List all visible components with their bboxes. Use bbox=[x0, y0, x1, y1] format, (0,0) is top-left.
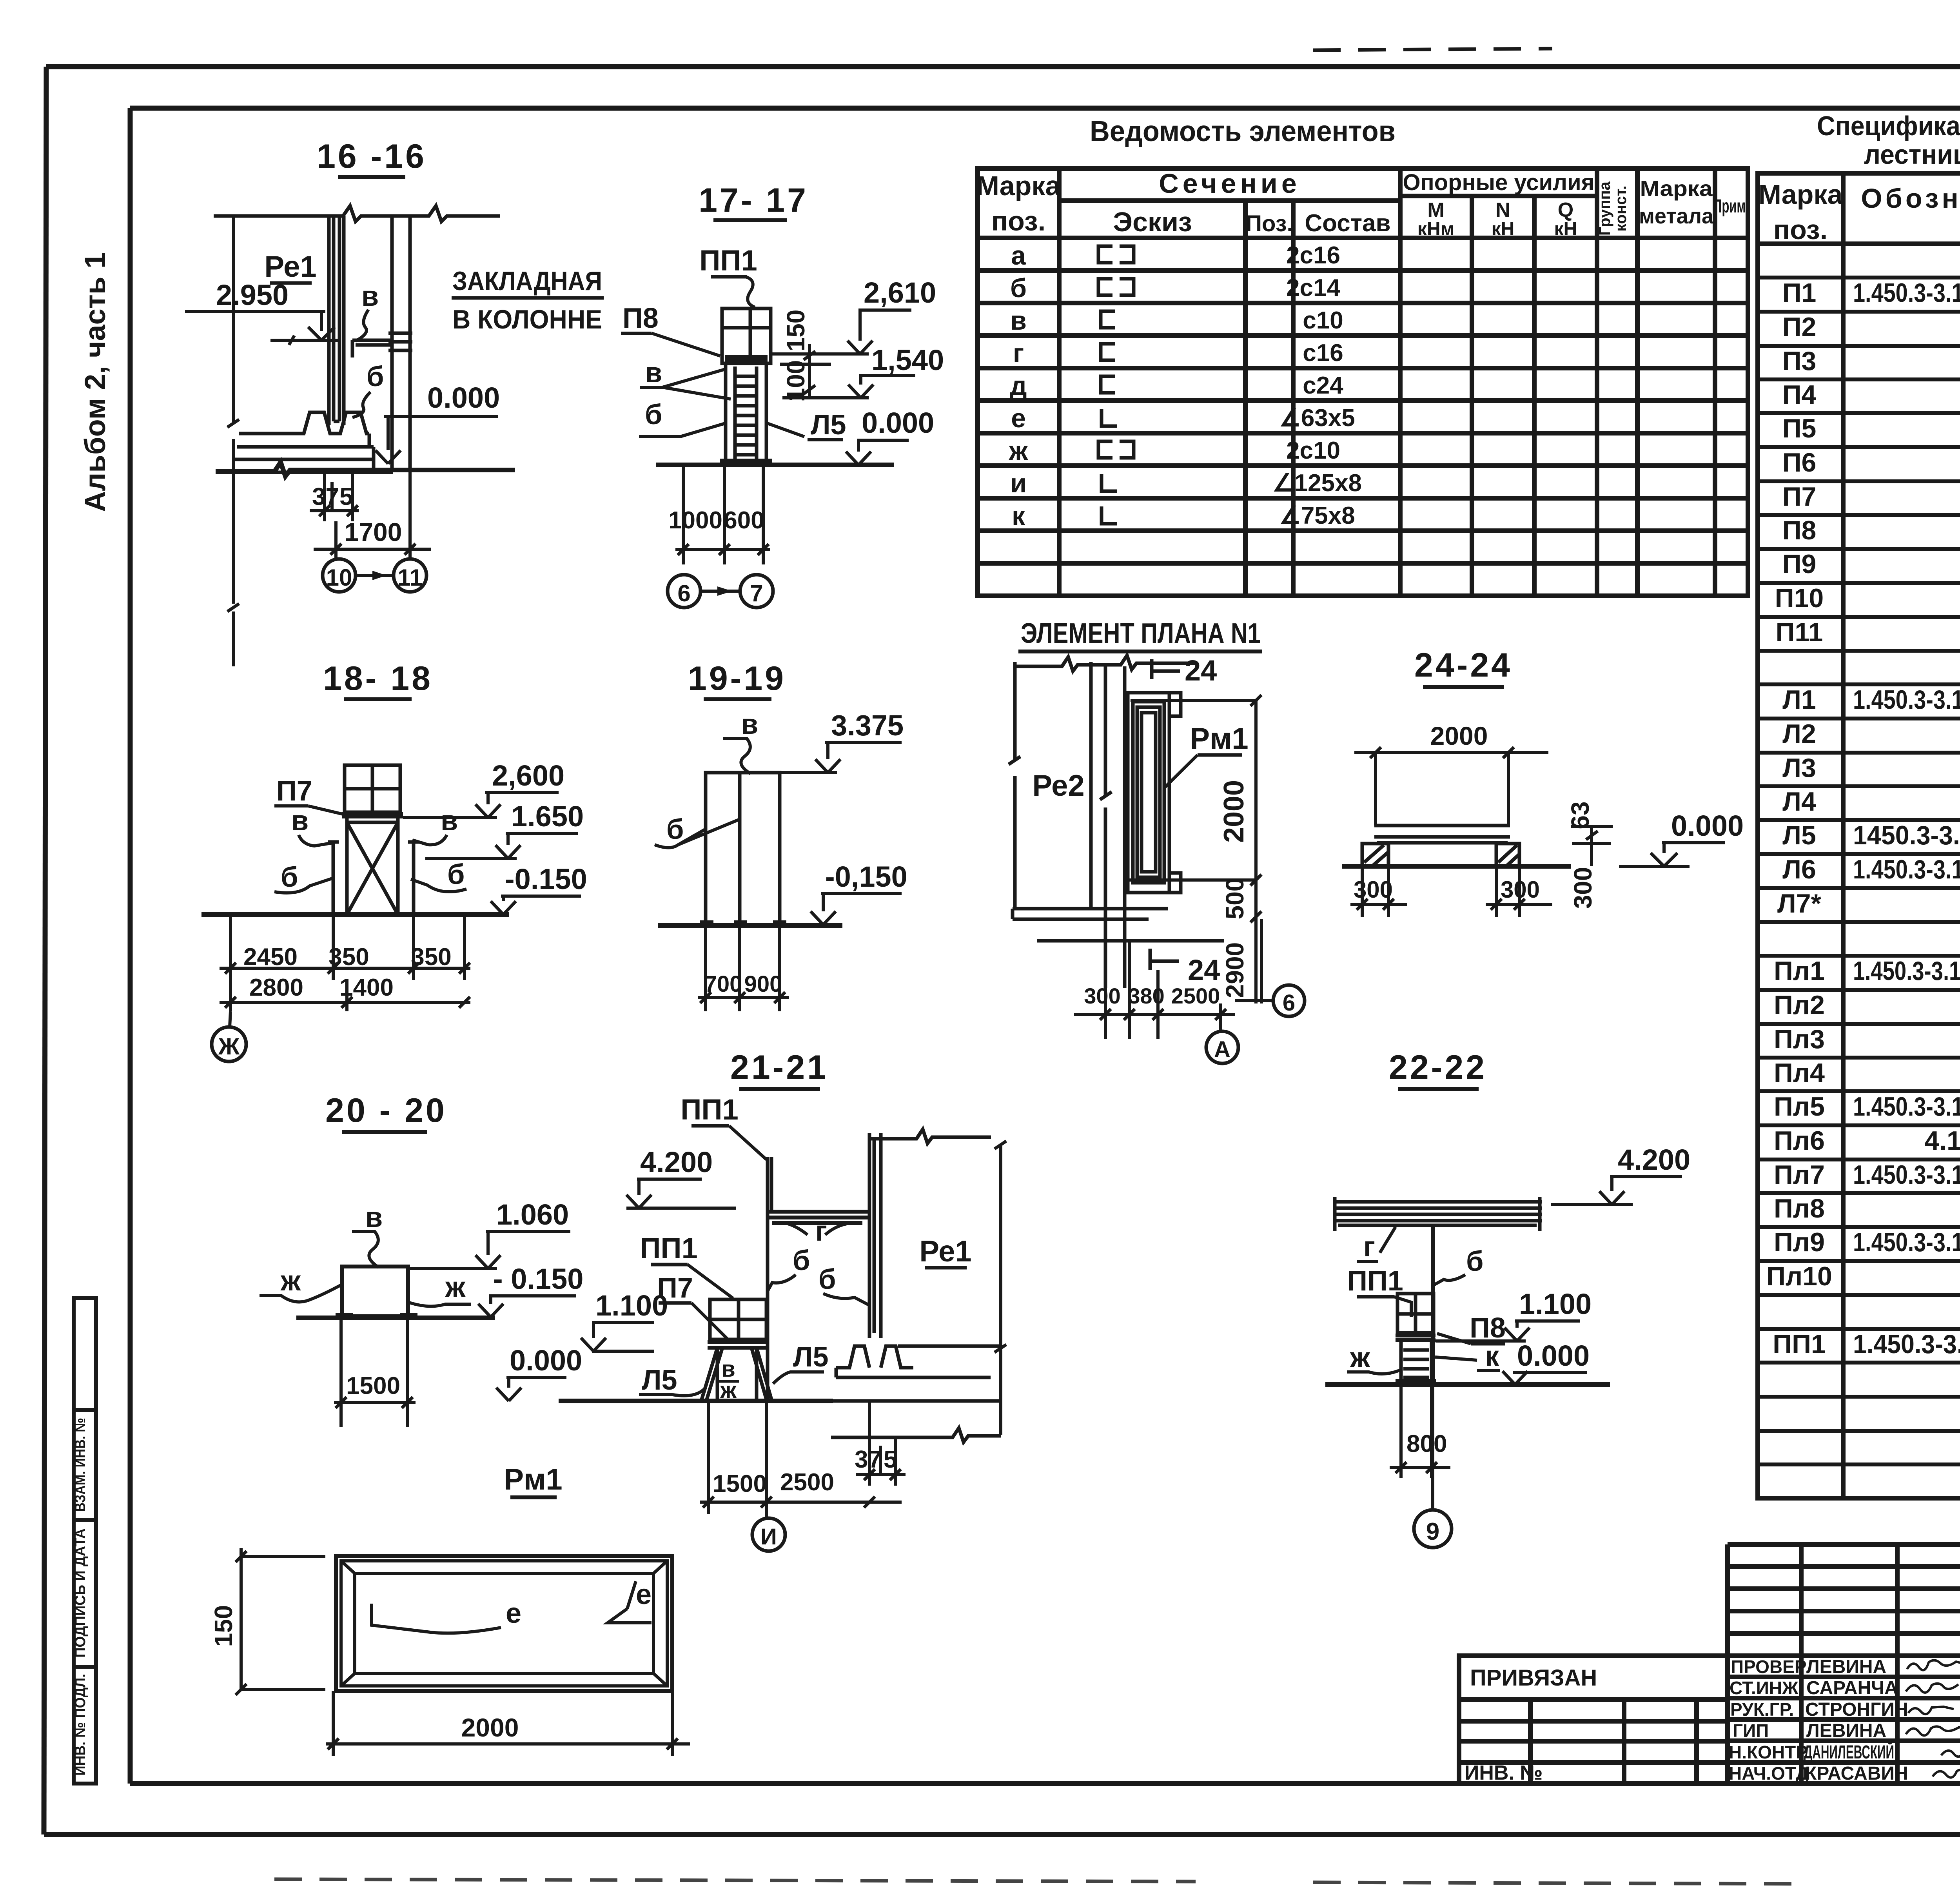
svg-text:20 - 20: 20 - 20 bbox=[325, 1092, 447, 1129]
svg-text:к: к bbox=[1012, 501, 1025, 531]
svg-text:П9: П9 bbox=[1782, 549, 1817, 579]
svg-text:поз.: поз. bbox=[991, 206, 1045, 236]
svg-text:ПП1: ПП1 bbox=[681, 1093, 739, 1126]
spec header texts bbox=[1759, 179, 1960, 245]
svg-text:Пл7: Пл7 bbox=[1774, 1160, 1825, 1190]
22-22 base pads bbox=[1396, 1379, 1436, 1384]
signature names bbox=[1804, 1657, 1908, 1784]
svg-text:с16: с16 bbox=[1303, 339, 1343, 367]
svg-text:П4: П4 bbox=[1782, 380, 1817, 410]
svg-text:100: 100 bbox=[782, 360, 810, 402]
svg-text:7: 7 bbox=[750, 580, 763, 606]
svg-text:М: М bbox=[1427, 199, 1444, 221]
svg-text:1.100: 1.100 bbox=[595, 1289, 668, 1322]
svg-text:РУК.ГР.: РУК.ГР. bbox=[1730, 1699, 1794, 1720]
svg-text:Эскиз: Эскиз bbox=[1113, 207, 1192, 237]
svg-text:Прим.: Прим. bbox=[1713, 196, 1749, 217]
svg-text:Пл9: Пл9 bbox=[1774, 1227, 1825, 1257]
svg-text:с10: с10 bbox=[1303, 307, 1343, 334]
svg-text:б: б bbox=[367, 361, 384, 392]
svg-text:Спецификация к схемам распо: Спецификация к схемам расположения площа… bbox=[1817, 111, 1960, 141]
svg-text:Группа: Группа bbox=[1596, 181, 1613, 236]
16-16 angle bracket at wall bbox=[352, 340, 392, 357]
svg-text:П3: П3 bbox=[1782, 346, 1817, 376]
svg-text:∠125х8: ∠125х8 bbox=[1272, 470, 1362, 497]
20-20 ground line bbox=[296, 1316, 495, 1320]
svg-text:2,610: 2,610 bbox=[864, 276, 936, 309]
svg-text:1.450.3-3.1 4.1.2.1.0-02: 1.450.3-3.1 4.1.2.1.0-02 bbox=[1853, 1227, 1960, 1257]
21-21 wall Pe1 bbox=[869, 1133, 881, 1338]
svg-text:300: 300 bbox=[1569, 867, 1597, 909]
svg-text:1500: 1500 bbox=[346, 1372, 400, 1399]
handwritten signatures bbox=[1906, 1660, 1960, 1777]
svg-text:Л5: Л5 bbox=[793, 1341, 829, 1373]
svg-text:ПП1: ПП1 bbox=[1773, 1329, 1826, 1359]
svg-text:2000: 2000 bbox=[1218, 780, 1250, 843]
svg-text:в: в bbox=[441, 805, 458, 836]
20-20 base pads bbox=[336, 1313, 353, 1318]
svg-text:поз.: поз. bbox=[1773, 214, 1828, 245]
svg-text:Марка: Марка bbox=[976, 171, 1061, 201]
svg-text:е: е bbox=[1011, 403, 1026, 433]
svg-text:4.200: 4.200 bbox=[640, 1146, 713, 1178]
svg-text:ИНВ. № ПОДЛ.: ИНВ. № ПОДЛ. bbox=[72, 1674, 89, 1776]
svg-text:ж: ж bbox=[1009, 436, 1028, 466]
21-21 wall top break bbox=[869, 1129, 991, 1143]
svg-text:2450: 2450 bbox=[243, 944, 298, 971]
svg-text:2с14: 2с14 bbox=[1286, 274, 1340, 301]
16-16 partition panel Pe1 bbox=[329, 216, 344, 425]
vedomost header texts bbox=[976, 168, 1749, 240]
svg-text:ЭЛЕМЕНТ ПЛАНА N1: ЭЛЕМЕНТ ПЛАНА N1 bbox=[1021, 618, 1261, 649]
16-16 embedded plate in column bbox=[388, 333, 412, 350]
18-18 axis circle Zh bbox=[212, 1027, 246, 1062]
svg-text:Л7*: Л7* bbox=[1777, 889, 1822, 918]
svg-text:П8: П8 bbox=[1470, 1312, 1506, 1344]
svg-text:П8: П8 bbox=[1782, 515, 1817, 545]
svg-text:Л5: Л5 bbox=[642, 1365, 677, 1396]
svg-text:500: 500 bbox=[1221, 878, 1249, 920]
svg-text:4.200: 4.200 bbox=[1618, 1143, 1690, 1176]
plan axis circle A bbox=[1206, 1031, 1238, 1063]
19-19 column bbox=[706, 773, 780, 925]
svg-text:1.450.3-3.1 1.2.1.0.0-07: 1.450.3-3.1 1.2.1.0.0-07 bbox=[1853, 855, 1960, 884]
vedomost sostav texts bbox=[1272, 242, 1362, 529]
svg-text:Пл10: Пл10 bbox=[1766, 1261, 1832, 1291]
svg-text:Сечение: Сечение bbox=[1159, 168, 1301, 199]
svg-text:Л1: Л1 bbox=[1782, 685, 1816, 715]
svg-text:ЛЕВИНА: ЛЕВИНА bbox=[1806, 1657, 1886, 1677]
21-21 axis circle I bbox=[752, 1518, 785, 1551]
svg-text:0.000: 0.000 bbox=[1671, 809, 1744, 842]
plan wall top break bbox=[1015, 655, 1195, 671]
svg-text:2800: 2800 bbox=[249, 974, 303, 1001]
svg-text:Л3: Л3 bbox=[1782, 753, 1816, 783]
left margin stamp strip bbox=[74, 1298, 96, 1784]
22-22 ground line bbox=[1325, 1382, 1610, 1387]
16-16 axis circle 11 bbox=[394, 559, 426, 592]
plan window opening with plate bbox=[1128, 693, 1181, 893]
svg-text:19-19: 19-19 bbox=[688, 660, 786, 697]
svg-text:Рм1: Рм1 bbox=[504, 1463, 562, 1496]
svg-text:Состав: Состав bbox=[1305, 210, 1390, 237]
svg-text:Ре2: Ре2 bbox=[1032, 769, 1084, 802]
svg-text:1.650: 1.650 bbox=[511, 800, 584, 833]
svg-text:11: 11 bbox=[397, 564, 422, 591]
svg-text:б: б bbox=[645, 399, 662, 430]
svg-text:ПОДПИСЬ И ДАТА: ПОДПИСЬ И ДАТА bbox=[72, 1528, 89, 1658]
svg-text:-0.150: -0.150 bbox=[505, 863, 587, 895]
svg-text:1.450.3-3.1 4.1.1.1.0-06: 1.450.3-3.1 4.1.1.1.0-06 bbox=[1853, 1160, 1960, 1190]
svg-text:∠63х5: ∠63х5 bbox=[1279, 405, 1355, 432]
22-22 post bbox=[1431, 1227, 1435, 1383]
svg-text:ВЗАМ. ИНВ. №: ВЗАМ. ИНВ. № bbox=[72, 1418, 89, 1512]
svg-text:1500: 1500 bbox=[713, 1470, 767, 1497]
24-24 platform slab bbox=[1374, 826, 1510, 843]
16-16 column wall bbox=[392, 216, 410, 470]
signature column grid bbox=[1728, 1544, 1960, 1784]
svg-text:2900: 2900 bbox=[1221, 942, 1249, 998]
svg-text:в: в bbox=[645, 357, 662, 388]
svg-text:0.000: 0.000 bbox=[510, 1344, 582, 1377]
svg-text:б: б bbox=[1010, 273, 1027, 303]
17-17 base plate bbox=[720, 459, 772, 465]
svg-text:Марка: Марка bbox=[1640, 176, 1713, 201]
svg-text:-0,150: -0,150 bbox=[825, 860, 907, 893]
svg-text:1450.3-3.1 .3.1.0.1.0: 1450.3-3.1 .3.1.0.1.0 bbox=[1853, 820, 1960, 850]
svg-text:ПРИВЯЗАН: ПРИВЯЗАН bbox=[1470, 1665, 1597, 1691]
svg-text:22-22: 22-22 bbox=[1389, 1049, 1487, 1086]
plan axis circle B bbox=[1273, 985, 1305, 1016]
plan section mark 24 bottom bbox=[1150, 949, 1179, 970]
svg-text:150: 150 bbox=[782, 310, 810, 352]
svg-text:Рм1: Рм1 bbox=[1190, 722, 1248, 755]
svg-text:б: б bbox=[281, 862, 298, 893]
plan wall Pe2 right edge bbox=[1089, 662, 1093, 909]
21-21 ground line bbox=[559, 1399, 833, 1403]
svg-text:10: 10 bbox=[326, 564, 352, 591]
24-24 support blocks hatched bbox=[1362, 844, 1519, 866]
svg-text:конст.: конст. bbox=[1612, 185, 1630, 232]
svg-text:ЗАКЛАДНАЯ: ЗАКЛАДНАЯ bbox=[452, 266, 602, 296]
svg-text:СТРОНГИН: СТРОНГИН bbox=[1805, 1699, 1908, 1720]
21-21 wall footing ribs bbox=[836, 1346, 913, 1368]
svg-text:24-24: 24-24 bbox=[1414, 646, 1512, 684]
plan inner wall lines bbox=[1100, 666, 1125, 988]
svg-text:Ведомость элементов: Ведомость элементов bbox=[1090, 115, 1396, 147]
17-17 dims below ground bbox=[675, 465, 770, 564]
17-17 axis circle 7 bbox=[740, 575, 773, 608]
svg-text:Л6: Л6 bbox=[1782, 855, 1816, 884]
21-21 railing post bbox=[768, 1157, 771, 1401]
svg-text:17- 17: 17- 17 bbox=[699, 181, 808, 219]
svg-text:21-21: 21-21 bbox=[730, 1049, 828, 1086]
svg-text:ИНВ. №: ИНВ. № bbox=[1465, 1762, 1543, 1784]
svg-text:16 -16: 16 -16 bbox=[317, 138, 426, 175]
svg-text:Пл8: Пл8 bbox=[1774, 1194, 1825, 1223]
svg-text:1000: 1000 bbox=[668, 507, 722, 534]
18-18 X braced panel bbox=[347, 818, 398, 915]
plan section mark 24 top bbox=[1152, 659, 1180, 679]
svg-text:П7: П7 bbox=[276, 775, 312, 807]
vedomost sketch symbols bbox=[1098, 246, 1134, 524]
svg-text:2500: 2500 bbox=[780, 1469, 834, 1496]
svg-text:2500: 2500 bbox=[1171, 983, 1220, 1008]
svg-text:ПП1: ПП1 bbox=[1347, 1265, 1403, 1297]
svg-text:ПРОВЕР: ПРОВЕР bbox=[1731, 1657, 1807, 1677]
svg-text:9: 9 bbox=[1426, 1518, 1439, 1545]
22-22 axis circle 9 bbox=[1414, 1510, 1452, 1548]
svg-text:Марка: Марка bbox=[1759, 179, 1843, 210]
spec table grid bbox=[1758, 173, 1960, 1498]
svg-text:В КОЛОННЕ: В КОЛОННЕ bbox=[452, 305, 602, 334]
svg-text:Пл6: Пл6 bbox=[1774, 1126, 1825, 1156]
svg-text:П6: П6 bbox=[1782, 448, 1817, 477]
svg-text:Пл3: Пл3 bbox=[1774, 1024, 1825, 1054]
svg-text:кН: кН bbox=[1554, 219, 1577, 240]
Rm1 plate outer bbox=[336, 1556, 672, 1691]
svg-text:Пл1: Пл1 bbox=[1774, 956, 1825, 986]
svg-text:Q: Q bbox=[1558, 199, 1573, 221]
svg-text:18- 18: 18- 18 bbox=[323, 660, 433, 697]
21-21 trestle legs bbox=[702, 1348, 771, 1399]
17-17 column head block bbox=[722, 308, 771, 363]
22-22 cap plate bbox=[1396, 1335, 1436, 1340]
svg-text:с24: с24 bbox=[1303, 372, 1343, 399]
svg-text:6: 6 bbox=[1283, 990, 1295, 1016]
svg-text:г: г bbox=[1013, 338, 1024, 368]
svg-text:в: в bbox=[365, 1202, 383, 1233]
svg-text:3.375: 3.375 bbox=[831, 709, 904, 742]
svg-text:Поз.: Поз. bbox=[1245, 211, 1293, 236]
svg-text:ПП1: ПП1 bbox=[699, 244, 757, 277]
svg-text:П2: П2 bbox=[1782, 312, 1817, 342]
20-20 footing box bbox=[342, 1267, 408, 1316]
svg-text:1.450.3-3.1 4.1.1.1.0.-07: 1.450.3-3.1 4.1.1.1.0.-07 bbox=[1853, 956, 1960, 986]
19-19 base pads bbox=[700, 920, 713, 925]
18-18 side angle right bbox=[408, 842, 419, 915]
svg-text:2,600: 2,600 bbox=[492, 759, 564, 792]
svg-text:и: и bbox=[1010, 468, 1027, 498]
21-21 ladder cap bbox=[708, 1342, 769, 1348]
17-17 axis connector arrow bbox=[701, 590, 740, 593]
17-17 ground line bbox=[656, 463, 894, 467]
svg-text:Опорные усилия: Опорные усилия bbox=[1403, 170, 1594, 195]
24-24 ground line bbox=[1342, 864, 1571, 869]
16-16 ground line bbox=[216, 462, 515, 476]
svg-text:- 0.150: - 0.150 bbox=[493, 1263, 583, 1295]
22-22 rail block bbox=[1397, 1294, 1434, 1333]
svg-text:г: г bbox=[1363, 1231, 1375, 1263]
16-16 top break line bbox=[214, 206, 500, 221]
16-16 axis circle 10 bbox=[323, 559, 356, 592]
plan bottom wall corner bbox=[1013, 909, 1224, 941]
21-21 wall base slab bbox=[831, 1346, 1001, 1442]
svg-text:Ре1: Ре1 bbox=[919, 1235, 971, 1268]
svg-text:4.1.2.1.0.- 04: 4.1.2.1.0.- 04 bbox=[1924, 1126, 1960, 1156]
svg-text:б: б bbox=[447, 859, 465, 890]
svg-text:Л2: Л2 bbox=[1782, 719, 1816, 749]
17-17 cap plate bbox=[725, 355, 768, 363]
svg-text:А: А bbox=[1214, 1037, 1230, 1062]
svg-text:2000: 2000 bbox=[1430, 721, 1488, 750]
svg-text:Пл2: Пл2 bbox=[1774, 990, 1825, 1020]
svg-text:1.450.3-3.1 2.1.1.0.0-37: 1.450.3-3.1 2.1.1.0.0-37 bbox=[1853, 278, 1960, 308]
svg-text:кНм: кНм bbox=[1417, 219, 1454, 240]
17-17 axis circle 6 bbox=[668, 575, 701, 608]
svg-text:е: е bbox=[506, 1598, 521, 1629]
svg-text:2.950: 2.950 bbox=[216, 279, 289, 311]
svg-text:1700: 1700 bbox=[345, 517, 402, 546]
svg-text:П8: П8 bbox=[622, 303, 659, 334]
svg-text:НАЧ.ОТД: НАЧ.ОТД bbox=[1729, 1763, 1809, 1784]
svg-text:П5: П5 bbox=[1782, 414, 1817, 443]
Rm1 corner bevels bbox=[341, 1561, 667, 1686]
svg-text:1.100: 1.100 bbox=[1519, 1288, 1592, 1320]
22-22 roof slab bbox=[1333, 1197, 1542, 1231]
svg-text:б: б bbox=[818, 1264, 836, 1295]
svg-text:И: И bbox=[760, 1524, 777, 1550]
svg-text:метала: метала bbox=[1639, 203, 1714, 228]
svg-text:1.450.3-3.1 1.1.1.0.0-07: 1.450.3-3.1 1.1.1.0.0-07 bbox=[1853, 685, 1960, 715]
svg-text:800: 800 bbox=[1406, 1430, 1447, 1457]
svg-text:ГИП: ГИП bbox=[1733, 1720, 1769, 1741]
svg-text:б: б bbox=[793, 1245, 810, 1276]
svg-text:П1: П1 bbox=[1782, 278, 1817, 308]
svg-text:а: а bbox=[1011, 241, 1026, 270]
svg-text:1.060: 1.060 bbox=[496, 1198, 569, 1231]
18-18 column head block bbox=[345, 765, 400, 812]
18-18 ground line bbox=[201, 912, 509, 917]
svg-text:к: к bbox=[1485, 1341, 1499, 1372]
svg-text:СТ.ИНЖ.: СТ.ИНЖ. bbox=[1730, 1678, 1803, 1698]
vedomost row labels bbox=[1009, 241, 1028, 531]
18-18 side angle left bbox=[328, 842, 339, 915]
18-18 cap plate bbox=[342, 812, 403, 818]
svg-text:24: 24 bbox=[1185, 654, 1217, 687]
svg-text:П10: П10 bbox=[1775, 583, 1824, 613]
svg-text:ПП1: ПП1 bbox=[640, 1232, 698, 1265]
privyazan box bbox=[1459, 1656, 1728, 1784]
svg-text:1,540: 1,540 bbox=[871, 344, 944, 376]
svg-text:ж: ж bbox=[1350, 1342, 1370, 1374]
17-17 ladder shaft bbox=[726, 363, 766, 460]
22-22 ladder shaft bbox=[1401, 1340, 1432, 1381]
21-21 deck beams bbox=[768, 1212, 869, 1223]
svg-text:Л5: Л5 bbox=[811, 409, 846, 441]
svg-text:2с10: 2с10 bbox=[1286, 437, 1340, 464]
svg-text:Обозначение: Обозначение bbox=[1861, 183, 1960, 214]
svg-text:Л5: Л5 bbox=[1782, 820, 1816, 850]
svg-text:ж: ж bbox=[445, 1272, 466, 1303]
svg-text:Ж: Ж bbox=[218, 1033, 240, 1060]
svg-text:в: в bbox=[361, 281, 379, 312]
svg-text:П7: П7 bbox=[1782, 482, 1817, 512]
svg-text:2с16: 2с16 bbox=[1286, 242, 1340, 269]
svg-text:0.000: 0.000 bbox=[427, 381, 500, 414]
svg-text:в: в bbox=[1010, 306, 1027, 336]
svg-text:0.000: 0.000 bbox=[862, 406, 934, 439]
signature roles bbox=[1729, 1657, 1809, 1784]
svg-text:е: е bbox=[636, 1579, 652, 1610]
svg-text:г: г bbox=[815, 1216, 827, 1247]
svg-text:ЛЕВИНА: ЛЕВИНА bbox=[1806, 1720, 1886, 1741]
svg-text:300: 300 bbox=[1084, 983, 1120, 1008]
svg-text:П11: П11 bbox=[1776, 617, 1823, 647]
svg-text:N: N bbox=[1495, 199, 1510, 221]
svg-text:КРАСАВИН: КРАСАВИН bbox=[1805, 1763, 1908, 1784]
svg-text:1.450.3-3.1 5.1.0.1.0.: 1.450.3-3.1 5.1.0.1.0. bbox=[1853, 1329, 1960, 1359]
svg-text:Пл4: Пл4 bbox=[1774, 1058, 1825, 1088]
svg-text:150: 150 bbox=[209, 1605, 238, 1647]
svg-text:Л4: Л4 bbox=[1782, 787, 1816, 817]
svg-text:24: 24 bbox=[1188, 954, 1220, 986]
svg-text:0.000: 0.000 bbox=[1517, 1339, 1590, 1372]
svg-text:900: 900 bbox=[744, 971, 782, 997]
21-21 ladder head block bbox=[710, 1299, 766, 1339]
svg-text:б: б bbox=[1466, 1246, 1483, 1277]
svg-text:лестниц, ограждения в осях: лестниц, ограждения в осях 6÷11; А÷К bbox=[1864, 139, 1960, 170]
svg-text:кН: кН bbox=[1492, 219, 1515, 240]
svg-text:САРАНЧА: САРАНЧА bbox=[1806, 1678, 1898, 1698]
16-16 left dimension line bbox=[227, 215, 239, 666]
svg-text:600: 600 bbox=[724, 507, 764, 534]
svg-text:ДАНИЛЕВСКИЙ: ДАНИЛЕВСКИЙ bbox=[1804, 1741, 1894, 1763]
svg-text:Н.КОНТР: Н.КОНТР bbox=[1729, 1742, 1808, 1762]
16-16 axis connector arrow bbox=[356, 574, 394, 577]
svg-text:в: в bbox=[741, 709, 758, 740]
vedomost table grid bbox=[978, 169, 1748, 596]
svg-text:2000: 2000 bbox=[461, 1713, 519, 1742]
svg-text:6: 6 bbox=[677, 580, 690, 606]
svg-text:б: б bbox=[666, 814, 684, 845]
svg-text:д: д bbox=[1010, 371, 1027, 401]
21-21 right vertical dim line bbox=[995, 1141, 1006, 1435]
spec table rows bbox=[1758, 278, 1960, 1464]
plan wall Pe2 left edge bbox=[1009, 662, 1020, 909]
svg-text:в: в bbox=[291, 805, 309, 836]
16-16 floor ribs bbox=[239, 412, 369, 434]
19-19 ground line bbox=[658, 923, 842, 928]
svg-text:Альбом 2, часть 1: Альбом 2, часть 1 bbox=[79, 252, 111, 512]
svg-text:ж: ж bbox=[280, 1265, 301, 1297]
svg-text:Пл5: Пл5 bbox=[1774, 1092, 1825, 1121]
svg-text:∠75х8: ∠75х8 bbox=[1279, 502, 1355, 529]
svg-text:1.450.3-3.1 4.1.2.1.0-13: 1.450.3-3.1 4.1.2.1.0-13 bbox=[1853, 1092, 1960, 1121]
